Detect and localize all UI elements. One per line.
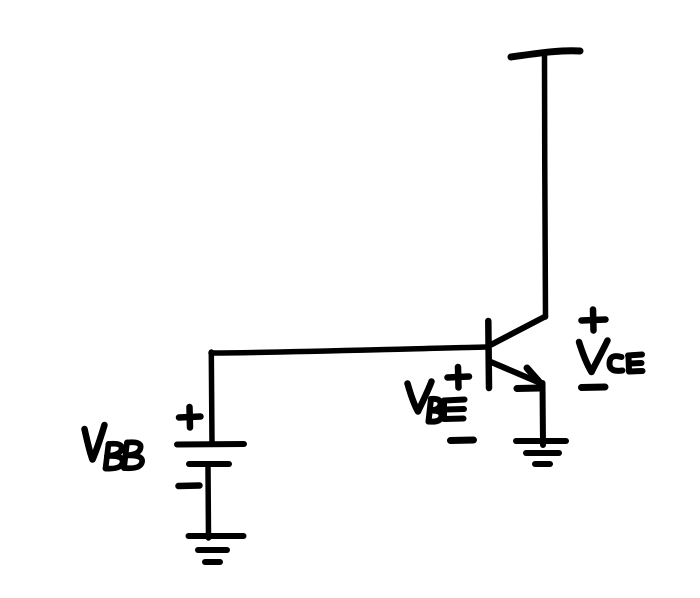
label VBB : letter V [85,425,105,460]
VBE plus sign [448,367,470,388]
label VBE : subscript BE [429,399,465,422]
transistor Q1 base bar [485,321,492,388]
transistor Q1 emitter arrowhead [527,368,542,385]
battery plus sign [179,407,201,428]
label VCE : letter V [579,341,608,373]
label VCE : subscript CE [609,355,642,372]
battery VBB top plate (+) [177,441,244,448]
ground (below VBB battery) [189,536,244,562]
VCE plus sign [582,310,606,331]
wire base (from VBB to transistor) [211,347,487,353]
wire emitter vertical [540,383,547,445]
VCE minus sign [582,384,606,392]
wire VBB vertical drop [209,352,215,444]
power rail (top supply bar) [511,51,580,57]
label VBE : letter V [408,382,432,412]
label VBB : subscript BB [106,442,143,468]
battery minus sign [179,482,200,489]
wire collector diagonal into transistor [492,317,546,345]
wire battery to ground [205,466,211,538]
ground (emitter) [516,441,566,464]
wire collector vertical [544,56,545,317]
battery VBB bottom plate (-) [189,461,229,467]
transistor Q1 emitter diagonal [491,362,539,383]
VBE minus sign [451,437,474,445]
